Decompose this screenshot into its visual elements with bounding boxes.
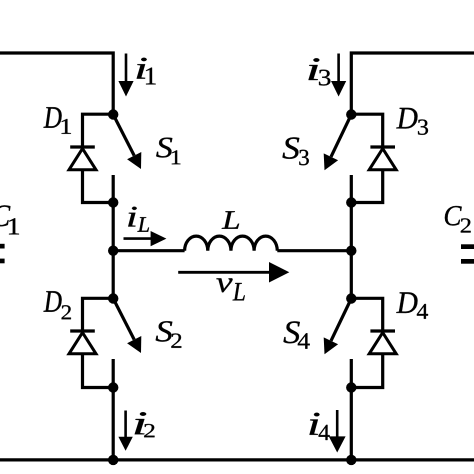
- node N2: [108, 197, 118, 207]
- diode D2 cathode bar: [70, 329, 95, 332]
- switch S2 arrowhead: [127, 336, 141, 353]
- wire right rail mid (M2-M3-M4): [350, 203, 353, 299]
- label vL: [216, 278, 232, 292]
- wire switch S1 stub: [112, 175, 115, 203]
- current arrow i1 stem: [125, 54, 128, 83]
- inductor L: [185, 236, 278, 251]
- label iL: [128, 207, 137, 227]
- voltage arrow vL stem: [178, 271, 270, 274]
- switch S4 blade: [331, 299, 351, 341]
- label D3: [396, 108, 417, 129]
- label L: [222, 211, 239, 228]
- label i4: [310, 413, 320, 435]
- current arrow iL head: [151, 231, 167, 246]
- node M3: [346, 246, 356, 256]
- switch S1 blade: [113, 115, 134, 156]
- voltage arrow vL head: [269, 262, 289, 283]
- diode D3 triangle: [369, 149, 396, 170]
- node N3: [108, 246, 118, 256]
- label D2: [44, 291, 62, 312]
- label C1: [0, 205, 10, 226]
- current arrow i1 head: [118, 81, 133, 97]
- label i3: [309, 58, 320, 80]
- switch S2 blade: [113, 299, 134, 340]
- wire left rail mid (N2-N3-N4): [112, 203, 115, 299]
- wire top-right rail: [351, 53, 474, 115]
- wire switch S3 stub: [350, 175, 353, 203]
- label S2: [156, 321, 173, 341]
- label i2: [135, 412, 147, 434]
- node M5: [346, 382, 356, 392]
- diode D1 triangle: [69, 149, 96, 170]
- current arrow iL stem: [124, 237, 153, 240]
- switch S1 arrowhead: [127, 152, 141, 169]
- capacitor C1 top plate: [0, 244, 5, 249]
- diode D2 triangle: [69, 333, 96, 354]
- wire switch S2 stub: [112, 359, 115, 388]
- diode D4 cathode bar: [370, 329, 395, 332]
- diode D1 wires: [83, 114, 114, 147]
- wire middle left (N3 to inductor): [113, 249, 184, 252]
- node N5: [108, 382, 118, 392]
- capacitor C1 bottom plate: [0, 259, 5, 264]
- diode D3 cathode bar: [370, 145, 395, 148]
- node M1: [346, 109, 356, 119]
- diode D4 triangle: [369, 333, 396, 354]
- current arrow i4 head: [329, 436, 346, 452]
- wire switch S4 stub: [350, 359, 353, 388]
- diode D3 wires: [351, 114, 382, 147]
- wire left rail bottom (N5-N6): [112, 388, 115, 460]
- switch S3 arrowhead: [324, 153, 338, 170]
- capacitor C2 bottom plate: [461, 259, 474, 264]
- label D1: [44, 107, 62, 128]
- wire bottom rail: [0, 458, 474, 461]
- label D4: [396, 292, 417, 313]
- wire right rail bottom (M5-M6): [350, 388, 353, 460]
- switch S3 blade: [331, 115, 351, 157]
- current arrow i4 stem: [336, 410, 339, 437]
- label S4: [284, 321, 300, 343]
- node N4: [108, 293, 118, 303]
- current arrow i2 stem: [124, 411, 127, 438]
- diode D1 cathode bar: [70, 145, 95, 148]
- label S1: [156, 138, 172, 158]
- node N6: [108, 455, 118, 465]
- current arrow i2 head: [118, 437, 132, 451]
- current arrow i3 head: [331, 81, 346, 97]
- label C2: [445, 206, 462, 226]
- label S3: [283, 137, 300, 158]
- capacitor C2 top plate: [461, 244, 474, 249]
- node M6: [346, 455, 356, 465]
- current arrow i3 stem: [337, 54, 340, 83]
- diode D4 wires: [351, 298, 382, 331]
- node M2: [346, 197, 356, 207]
- label i1: [137, 58, 147, 79]
- diode D2 wires: [83, 298, 114, 331]
- node M4: [346, 293, 356, 303]
- wire middle right (inductor to M3): [277, 249, 351, 252]
- switch S4 arrowhead: [324, 337, 338, 354]
- node N1: [108, 109, 118, 119]
- wire top-left rail: [0, 53, 113, 115]
